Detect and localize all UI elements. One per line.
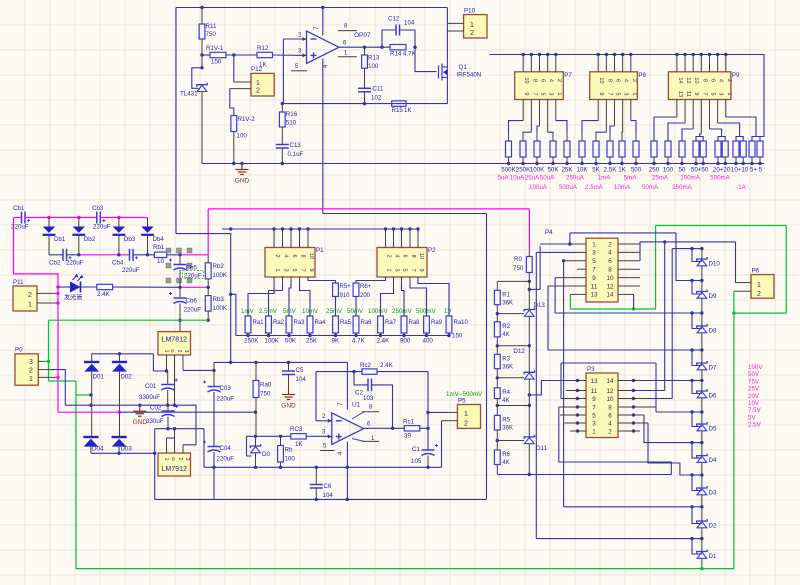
junction P3 left pin [576, 389, 579, 392]
wire green top border [656, 225, 787, 227]
wire P0 pin 1 [38, 376, 58, 378]
svg-text:12: 12 [606, 388, 614, 395]
svg-text:1: 1 [556, 92, 562, 95]
junction Ra bottom [379, 334, 382, 337]
zener D12 [524, 370, 534, 379]
junction LM7912 pin2 [173, 427, 176, 430]
wire P6 pin1 feed [640, 241, 736, 243]
resistor Ra1 [245, 316, 251, 333]
junction bank rail [530, 53, 533, 56]
wire D10 riser [671, 249, 673, 399]
pin 8 stub U1 [352, 412, 364, 419]
capacitor C12 [396, 25, 400, 36]
wire D03 bottom lead [118, 447, 120, 454]
wire bank pin stub [597, 55, 599, 72]
svg-text:220uF: 220uF [184, 307, 202, 314]
wire row2 to Rb1 [133, 254, 154, 256]
svg-text:500uA: 500uA [559, 184, 578, 191]
zener D13 [524, 308, 534, 317]
connector P1 [265, 248, 315, 278]
wire P6 pin1 stub [736, 282, 752, 284]
wire D7 feed [548, 349, 692, 351]
junction resistor ground [608, 162, 611, 165]
junction C6 lower rail [315, 498, 318, 501]
wire Cb5 bottom lead [179, 270, 181, 287]
wire magenta row2 [180, 286, 208, 288]
junction green pin3 [47, 360, 50, 363]
wire resistor to ground rail [667, 157, 669, 164]
svg-text:100mA: 100mA [680, 175, 700, 182]
svg-text:100K: 100K [213, 305, 228, 312]
svg-text:2: 2 [470, 30, 474, 37]
wire chain to green rail [701, 558, 703, 568]
junction chain ground [528, 473, 531, 476]
svg-text:10: 10 [523, 77, 529, 83]
wire resistor to ground rail [635, 157, 637, 164]
wire P5 pin1 stub [448, 411, 457, 413]
svg-text:220uF: 220uF [11, 224, 29, 231]
junction P3 right pin [632, 421, 635, 424]
svg-text:C04: C04 [220, 445, 232, 452]
svg-text:LM7812: LM7812 [162, 337, 187, 344]
wire Ra0 to input row [255, 398, 257, 437]
zener D3 [697, 486, 707, 495]
svg-text:13: 13 [590, 378, 598, 385]
svg-text:Ra5: Ra5 [340, 320, 352, 326]
junction P6 feed [663, 240, 666, 243]
junction bank rail [708, 53, 711, 56]
wire Rb2 top lead [207, 255, 209, 263]
svg-text:750: 750 [260, 391, 271, 398]
junction chain D7 [700, 348, 703, 351]
wire Rb3 to green rail [207, 311, 209, 320]
wire P0 pin 2 [38, 369, 50, 371]
wire block top stub [282, 229, 284, 248]
wire R6+ to Ra6 [355, 297, 357, 317]
junction C04 amp rail [212, 466, 215, 469]
wire 2.4K to Cb node [113, 286, 180, 288]
wire bank fan P9 [725, 100, 727, 118]
svg-text:220uF: 220uF [66, 260, 84, 267]
svg-text:9: 9 [598, 92, 604, 95]
wire TL431 to ground rail [201, 92, 203, 164]
wire D3 feed [648, 423, 692, 475]
junction resistor ground [565, 162, 568, 165]
wire LM7912 pin3 [182, 445, 184, 453]
svg-text:25K: 25K [561, 167, 573, 174]
svg-text:R1V-1: R1V-1 [206, 45, 224, 52]
junction bank rail [546, 53, 549, 56]
svg-text:2: 2 [631, 79, 637, 82]
junction C5 top [287, 361, 290, 364]
wire C12 right to node [400, 30, 416, 47]
svg-text:4K: 4K [502, 460, 509, 466]
resistor R5 [494, 415, 500, 430]
junction chain D4 [700, 441, 703, 444]
zener D4 [697, 454, 707, 463]
wire resistor to ground rail [735, 157, 737, 164]
wire P3 pin13 stub [570, 380, 586, 382]
junction Ra bottom [402, 334, 405, 337]
junction rectifier rail riser [153, 452, 156, 455]
junction D04 line rail [89, 404, 92, 407]
junction bank rail [554, 53, 557, 56]
svg-text:R12: R12 [257, 45, 269, 52]
wire P4 pin11 [548, 285, 586, 287]
svg-text:Db4: Db4 [153, 236, 165, 243]
junction Ra0 top [254, 361, 257, 364]
junction resistor ground [742, 162, 745, 165]
junction bank rail [724, 53, 727, 56]
junction resistor ground [758, 162, 761, 165]
svg-text:C11: C11 [373, 86, 384, 93]
svg-text:P4: P4 [545, 229, 553, 236]
connector P7 [515, 72, 564, 100]
wire bypass bracket D2 [692, 507, 702, 524]
wire bank pin stub [622, 55, 624, 72]
junction P3 right pin [632, 413, 635, 416]
junction resistor ground [535, 162, 538, 165]
svg-text:IRF540N: IRF540N [457, 72, 482, 79]
svg-text:4: 4 [623, 79, 629, 82]
wire C6 top lead [315, 467, 317, 484]
wire P10 pin 2 [447, 30, 463, 32]
wire Db3 bottom lead [118, 236, 120, 255]
wire P3 pin1 stub [570, 430, 586, 432]
junction bank rail [597, 53, 600, 56]
svg-text:Rb2: Rb2 [213, 263, 225, 270]
svg-text:100K: 100K [265, 338, 280, 345]
svg-text:LM7912: LM7912 [162, 466, 187, 473]
junction Rc1 node [426, 427, 429, 430]
wire Db1 top lead [48, 218, 50, 227]
wire Q1 source to mid rail [446, 78, 448, 104]
svg-text:2.4K: 2.4K [380, 362, 394, 369]
wire Ra bottom lead [288, 333, 290, 336]
wire chain 2 [528, 316, 530, 372]
junction P3 right pin [632, 397, 635, 400]
svg-text:50V: 50V [748, 371, 760, 378]
svg-text:R16: R16 [286, 111, 298, 118]
diode D04 [83, 437, 98, 447]
junction block rail [392, 227, 395, 230]
wire op-amp pin 4 down [322, 59, 324, 214]
wire D02 to D03 [119, 372, 121, 437]
wire feed join D3 [692, 474, 702, 476]
svg-text:2.5V: 2.5V [748, 422, 762, 429]
svg-text:P0: P0 [15, 347, 23, 354]
junction resistor ground [702, 162, 705, 165]
wire crossover mid [561, 362, 656, 364]
svg-text:6: 6 [710, 79, 716, 82]
svg-text:Cb1: Cb1 [13, 205, 25, 212]
wire amp supply rail [214, 361, 347, 363]
svg-text:D6: D6 [709, 393, 717, 400]
svg-text:1: 1 [386, 268, 392, 271]
junction R0 jog [528, 288, 531, 291]
resistor Ra8 [401, 316, 407, 333]
junction C03 feed [212, 369, 215, 372]
svg-text:P12: P12 [251, 66, 263, 73]
resistor Ra10 [446, 316, 452, 333]
wire magenta left feed [14, 218, 59, 413]
wire P4 pin14 to green [633, 294, 635, 309]
wire magenta R0 feed [528, 209, 530, 250]
svg-text:7: 7 [410, 268, 416, 271]
wire P4 pin3 blue [536, 251, 577, 253]
svg-text:36K: 36K [502, 364, 513, 370]
junction Db4 row2 [146, 253, 149, 256]
svg-text:8: 8 [531, 79, 537, 82]
svg-text:Ra4: Ra4 [315, 320, 327, 326]
wire feed join D9 [692, 280, 702, 282]
svg-text:D12: D12 [514, 348, 526, 355]
wire R12 to op-amp pin 3 [273, 54, 307, 56]
capacitor Cb6 [169, 292, 187, 304]
diode Db2 [72, 227, 85, 235]
svg-text:510: 510 [286, 120, 297, 127]
wire green P4 pin13 drop [569, 294, 571, 309]
svg-text:2: 2 [177, 458, 183, 461]
wire R13 top lead [364, 47, 366, 55]
wire C2 right to output [372, 385, 393, 428]
svg-text:50mA: 50mA [642, 184, 659, 191]
svg-text:D0: D0 [262, 451, 270, 458]
wire bank pin stub [684, 55, 686, 72]
svg-text:2.4K: 2.4K [377, 338, 391, 345]
wire bank fan [597, 100, 599, 121]
wire magenta low rail [58, 411, 119, 413]
svg-text:Cb2: Cb2 [49, 260, 61, 267]
svg-text:5: 5 [710, 92, 716, 95]
wire green rail [49, 319, 209, 321]
ground GND power [133, 405, 146, 416]
wire minus rail [65, 405, 196, 445]
wire D8 feed [555, 312, 692, 314]
wire Ra common rail [236, 335, 449, 337]
junction block rail [272, 227, 275, 230]
svg-text:3: 3 [283, 268, 289, 271]
junction feed D6 [690, 379, 693, 382]
wire Cb6 to green rail [179, 304, 181, 321]
wire green P0 pin3 drop [48, 320, 50, 381]
wire D6 feed [640, 380, 692, 382]
wire node to D13 [497, 313, 524, 315]
value 220uF selected [183, 271, 204, 279]
svg-text:6: 6 [402, 254, 408, 257]
junction feed D7 [690, 348, 693, 351]
wire P4 pin10 stub [618, 277, 640, 279]
wire P1 fan [299, 277, 301, 285]
capacitor C02 [162, 405, 179, 417]
wire P4 pin4 stub [618, 251, 640, 253]
junction resistor ground [652, 162, 655, 165]
junction P11 pin1 magenta [56, 301, 59, 304]
svg-text:220uF: 220uF [217, 396, 235, 403]
wire P3 pin3 stub [564, 422, 586, 424]
ground GND C5 [282, 389, 295, 400]
wire jog to P4 pin1 line [529, 288, 540, 290]
junction chain D1 [700, 537, 703, 540]
junction green P6 pin2 [732, 311, 735, 314]
wire P5 pin2 down [441, 421, 443, 468]
svg-text:3300uF: 3300uF [139, 394, 160, 401]
svg-text:2: 2 [464, 421, 468, 428]
wire feedback left [316, 371, 362, 373]
svg-text:Cb4: Cb4 [112, 260, 124, 267]
resistor Ra5 [333, 316, 339, 333]
svg-text:1K: 1K [618, 167, 626, 174]
wire U1 pin7 [346, 362, 348, 409]
wire node to D12 [497, 377, 524, 379]
wire bank fan [530, 100, 532, 133]
svg-text:8: 8 [608, 404, 612, 411]
resistor Ra7 [378, 316, 384, 333]
wire U1 pin 2 [316, 420, 332, 422]
wire R0 to R1 [497, 280, 529, 282]
svg-text:9: 9 [418, 268, 424, 271]
resistor R6+ [353, 283, 359, 297]
wire resistor to ground rail [566, 157, 568, 164]
svg-text:R4: R4 [502, 390, 510, 396]
wire cap row magenta [25, 217, 96, 219]
svg-text:R6: R6 [502, 452, 510, 458]
wire P11 pin 1 [37, 302, 58, 304]
wire P12 pin 2 [230, 88, 251, 90]
svg-text:5: 5 [402, 268, 408, 271]
resistor bank R19 [740, 141, 746, 157]
wire D0 loop [247, 436, 256, 456]
wire chain to D6 [701, 370, 703, 391]
svg-text:R5+: R5+ [340, 284, 352, 290]
svg-text:39: 39 [404, 433, 411, 440]
svg-text:4K: 4K [502, 332, 509, 338]
regulator LM7812 [158, 332, 191, 355]
svg-text:2: 2 [757, 291, 761, 298]
wire ladder segment [496, 430, 498, 450]
resistor R1V-2 [231, 116, 237, 132]
svg-text:1mV--500mV: 1mV--500mV [446, 391, 483, 398]
junction bank rail [700, 53, 703, 56]
svg-text:4: 4 [548, 79, 554, 82]
wire rectifier bottom rail [91, 452, 155, 454]
wire C5 top lead [288, 362, 290, 370]
wire P12 pin2 to R1V-2 [230, 89, 234, 116]
svg-text:Cb6: Cb6 [186, 298, 198, 305]
svg-text:50K: 50K [285, 338, 297, 345]
diode Db3 [113, 227, 126, 235]
wire D8 feed drop [554, 278, 556, 313]
wire op-amp pin2 vertical [282, 39, 284, 104]
junction C01/LM7812 [165, 369, 168, 372]
svg-text:100K: 100K [530, 167, 545, 174]
svg-text:1: 1 [726, 92, 732, 95]
capacitor C1 [422, 444, 439, 456]
wire bank fan P9 [709, 100, 711, 130]
svg-text:6: 6 [540, 79, 546, 82]
shunt regulator TL431 [197, 83, 207, 92]
svg-text:Ra7: Ra7 [385, 320, 397, 326]
svg-text:10: 10 [418, 253, 424, 259]
wire Ra bottom lead [335, 333, 337, 336]
junction C13 ground [281, 162, 284, 165]
svg-text:5: 5 [592, 258, 596, 265]
svg-text:C12: C12 [388, 16, 400, 23]
wire resistor to ground rail [653, 157, 655, 164]
svg-text:3: 3 [183, 350, 189, 353]
svg-text:1: 1 [29, 376, 33, 383]
svg-text:250mA: 250mA [672, 184, 692, 191]
transistor Q1 IRF540N [439, 64, 448, 81]
wire chain to D7 [701, 333, 703, 363]
wire LM7912 pin1 tie [167, 437, 175, 439]
wire LED left lead [58, 286, 70, 288]
junction Cb5/Cb6 [178, 286, 181, 289]
capacitor Cb5 [169, 259, 187, 271]
svg-text:D3: D3 [709, 490, 717, 497]
wire P4 pin12 stub [618, 285, 640, 287]
wire D9 feed [676, 233, 692, 281]
svg-text:750: 750 [206, 31, 217, 38]
wire D1 feed [536, 538, 692, 540]
wire block top stub [393, 229, 395, 248]
resistor Rc1 [404, 426, 420, 431]
junction D12 tap [528, 393, 531, 396]
junction chain D9 [700, 279, 703, 282]
junction C11 mid rail [363, 102, 366, 105]
pin 5 stub [291, 70, 307, 72]
zener D11 [524, 435, 534, 444]
junction C2 output [391, 427, 394, 430]
svg-text:Rc2: Rc2 [360, 362, 372, 369]
wire D1 feed drop [535, 252, 537, 538]
wire resistor to ground rail [621, 157, 623, 164]
svg-text:D11: D11 [536, 445, 547, 452]
svg-text:Ra9: Ra9 [431, 320, 443, 326]
wire bank pin stub [522, 55, 524, 72]
wire bank fan [622, 100, 624, 133]
junction P5 pin1 [426, 411, 429, 414]
svg-text:RC3: RC3 [290, 426, 303, 433]
junction P3 left pin [576, 397, 579, 400]
junction feed D1 [690, 537, 693, 540]
wire resistor to ground rail [595, 157, 597, 164]
connector P2 [377, 248, 427, 278]
junction cap row [117, 216, 120, 219]
svg-text:1: 1 [592, 428, 596, 435]
svg-text:8: 8 [608, 267, 612, 274]
wire block top stub [273, 229, 275, 248]
wire C1 bottom lead [427, 456, 429, 468]
wire resistor to ground rail [751, 157, 753, 164]
svg-text:9K: 9K [332, 338, 340, 345]
junction TL431 ref [200, 66, 203, 69]
svg-text:R2: R2 [502, 324, 510, 330]
junction resistor ground [620, 162, 623, 165]
junction Rb2/Rb3 [207, 286, 210, 289]
resistor Rb1 [154, 252, 166, 257]
wire Ra bottom lead [426, 333, 428, 336]
resistor bank R8 [607, 141, 613, 157]
capacitor C01 [161, 379, 178, 391]
junction output/R13 [363, 46, 366, 49]
svg-text:P7: P7 [564, 72, 572, 79]
junction D02 top [118, 352, 121, 355]
svg-text:2.5K: 2.5K [604, 167, 618, 174]
svg-text:1: 1 [163, 458, 169, 461]
wire resistor to ground rail [609, 157, 611, 164]
capacitor C03 [203, 381, 221, 393]
